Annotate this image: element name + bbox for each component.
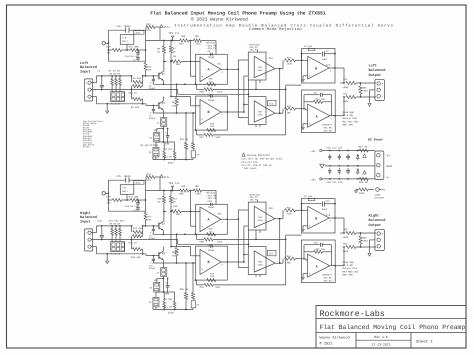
pin stubs IC4	[256, 50, 258, 52]
shunt regulator TL431	[134, 31, 145, 35]
svg-text:R30: R30	[106, 45, 111, 48]
wire output top	[343, 68, 345, 83]
output node IC3	[275, 262, 283, 264]
svg-text:+: +	[201, 225, 203, 228]
ground at output connector	[370, 239, 375, 241]
svg-text:499: 499	[172, 255, 177, 258]
rail splitter U2 TLE2426	[120, 35, 134, 45]
wire cross-feedback between diff amps	[279, 69, 281, 114]
svg-text:Input: Input	[80, 220, 91, 225]
svg-text:+: +	[201, 268, 203, 271]
svg-text:1A21: 1A21	[217, 90, 223, 93]
wire output A	[330, 265, 344, 267]
wire op-amp B output	[221, 261, 244, 263]
resistor R5 499	[131, 90, 133, 100]
svg-text:IC9: IC9	[326, 214, 331, 217]
svg-text:C16: C16	[97, 220, 102, 223]
capacitor C24 47uF/25	[137, 204, 139, 207]
svg-text:2021 1B: 2021 1B	[163, 305, 173, 308]
svg-text:B: B	[208, 260, 210, 265]
diff amp IC7 THAT1240 box	[248, 247, 266, 275]
svg-text:C0A1: C0A1	[363, 240, 369, 243]
svg-text:7K5: 7K5	[147, 68, 152, 71]
svg-text:IC6: IC6	[217, 213, 222, 216]
svg-text:L431: L431	[135, 182, 141, 185]
resistor R69 100	[360, 233, 362, 236]
svg-text:+: +	[309, 123, 311, 126]
resistor R16 10K	[194, 39, 202, 42]
label IC3	[268, 100, 277, 106]
svg-text:-: -	[201, 254, 203, 257]
svg-text:10K: 10K	[106, 202, 111, 205]
resistor R43	[119, 226, 121, 229]
title block divider 2	[316, 332, 466, 334]
capacitor C2 220pF	[152, 76, 154, 78]
svg-text:+: +	[381, 83, 383, 86]
svg-text:R52 R51: R52 R51	[163, 298, 173, 301]
svg-text:R34: R34	[147, 23, 152, 26]
title block divider 1	[316, 318, 466, 320]
jumper J5	[154, 132, 160, 142]
resistor R14 316 on box edge	[207, 83, 216, 86]
feedback resistor box	[308, 48, 315, 50]
svg-text:220pF: 220pF	[208, 99, 215, 102]
svg-text:R58 1B: R58 1B	[180, 288, 189, 291]
resistor R59 1K21	[195, 279, 197, 281]
jumper header JH1	[111, 92, 125, 102]
wire servo tap B stage	[286, 84, 302, 86]
svg-text:Q1: Q1	[162, 73, 166, 76]
op-amp IC5 A	[308, 104, 330, 127]
resistor R50 499	[176, 234, 178, 247]
resistor R73 10	[131, 236, 133, 239]
output op-amp box A	[301, 90, 335, 133]
svg-text:TP4: TP4	[381, 189, 386, 192]
svg-text:Balanced: Balanced	[80, 215, 97, 220]
svg-text:-15v P4: -15v P4	[322, 129, 332, 132]
svg-text:R16: R16	[196, 42, 201, 45]
svg-text:Right: Right	[369, 214, 380, 219]
svg-text:68nF: 68nF	[322, 58, 328, 61]
capacitor C18 220pF	[152, 256, 154, 259]
output op-amp box B	[302, 49, 336, 84]
jumper J6	[153, 147, 159, 157]
resistor R64 10K	[282, 259, 284, 264]
rail splitter loop	[107, 180, 109, 211]
resistor R13 10	[131, 86, 133, 89]
output connector J10	[375, 79, 385, 100]
svg-text:Δ17v: Δ17v	[164, 26, 171, 29]
left channel bias rail	[146, 40, 180, 42]
svg-text:499: 499	[176, 213, 181, 216]
svg-text:R22: R22	[343, 78, 348, 81]
wire Q2 emitter row	[153, 262, 195, 264]
capacitor C17 220pF	[152, 226, 154, 228]
wire input- line	[91, 96, 96, 98]
ground at output connector	[370, 89, 375, 91]
svg-text:-15v P4: -15v P4	[322, 279, 332, 282]
wire cross-couple A out	[237, 218, 239, 220]
ground at output A + input	[303, 273, 308, 275]
transistor Q1 ZTX851	[158, 73, 160, 80]
svg-text:+: +	[201, 118, 203, 121]
svg-text:R66 100: R66 100	[343, 123, 354, 126]
svg-text:500: 500	[165, 292, 170, 295]
svg-text:R45 499: R45 499	[131, 256, 141, 259]
wire input+ line	[91, 82, 96, 84]
svg-text:+509: +509	[343, 236, 349, 239]
op-amp stage box B	[196, 246, 228, 280]
wire emitter bus	[153, 233, 195, 235]
svg-text:R68: R68	[343, 228, 348, 231]
pin stubs IC3	[255, 125, 257, 128]
resistor R74 178	[146, 175, 155, 178]
wire op-amp A output	[221, 218, 238, 220]
svg-text:R62: R62	[287, 207, 292, 210]
svg-text:Gain: Gain	[168, 312, 175, 315]
svg-text:1A21: 1A21	[215, 136, 221, 139]
resistor R62 121K	[282, 210, 284, 218]
resistor R60 1K21	[195, 233, 196, 235]
svg-text:1240: 1240	[258, 113, 264, 116]
wire output bottom	[343, 247, 345, 266]
resistor R6 1K	[163, 41, 165, 47]
wire cross-couple B out	[243, 111, 245, 113]
resistor R19 1K21	[195, 129, 197, 131]
svg-text:L431: L431	[135, 32, 141, 35]
svg-text:+: +	[309, 273, 311, 276]
wire output B	[329, 67, 344, 69]
svg-text:10K: 10K	[195, 185, 200, 188]
svg-text:1240: 1240	[258, 69, 264, 72]
warning marker -	[363, 171, 366, 174]
capacitor C3 220pF	[152, 106, 154, 109]
right channel	[80, 173, 385, 314]
svg-text:R44 499: R44 499	[133, 227, 143, 230]
svg-text:1B 1B 1B: 1B 1B 1B	[109, 73, 120, 76]
svg-text:R22: R22	[287, 57, 292, 60]
svg-text:7K5: 7K5	[147, 218, 152, 221]
resistor R51	[173, 301, 176, 308]
resistor R46 1K	[163, 191, 165, 197]
svg-text:R37 1R: R37 1R	[359, 145, 368, 148]
svg-text:C22: C22	[314, 242, 319, 245]
capacitor C2F electrolytic	[192, 263, 194, 293]
capacitor C8 47uF/25	[137, 50, 139, 52]
svg-text:Q4: Q4	[162, 252, 166, 255]
svg-text:R48: R48	[173, 205, 178, 208]
svg-text:J1,J2,J3: J1,J2,J3	[110, 253, 121, 256]
output op-amp box B	[302, 199, 336, 234]
wire input+ line	[91, 232, 96, 234]
resistor R22 5R9	[346, 81, 356, 84]
svg-text:R74: R74	[147, 173, 152, 176]
svg-text:V-: V-	[387, 176, 391, 179]
feedback resistor box	[308, 198, 315, 200]
svg-text:10K: 10K	[181, 35, 186, 38]
node wire rail to input stage	[163, 190, 165, 192]
wire Q2 emitter row	[153, 112, 195, 114]
resistor R32 7K5	[145, 61, 147, 62]
svg-text:C19: C19	[208, 200, 213, 203]
svg-text:R12 R11: R12 R11	[163, 148, 173, 151]
svg-text:Gain: Gain	[168, 162, 175, 165]
svg-text:Δ17v: Δ17v	[164, 176, 171, 179]
svg-text:178: 178	[147, 179, 152, 182]
capacitor C11	[338, 168, 340, 170]
resistor R9 499	[176, 84, 178, 97]
wire servo tap B stage	[286, 234, 302, 236]
svg-text:R2B: R2B	[200, 90, 205, 93]
svg-text:-: -	[381, 95, 383, 98]
wire rail to op-amp supply	[202, 190, 217, 192]
rail splitter loop	[107, 30, 109, 61]
capacitor C12	[338, 154, 340, 156]
svg-text:1Z1K: 1Z1K	[287, 212, 293, 215]
resistor R20 1K21	[195, 83, 196, 85]
svg-text:R19: R19	[200, 286, 205, 289]
output node IC4	[275, 68, 283, 70]
svg-text:R55: R55	[179, 192, 184, 195]
svg-text:+15v: +15v	[310, 150, 316, 153]
svg-text:DC Power: DC Power	[368, 137, 383, 141]
wire Q2 collector to op-amp B	[171, 246, 191, 248]
wire output A	[330, 115, 344, 117]
svg-text:IC1: IC1	[217, 63, 222, 66]
svg-text:IC2: IC2	[326, 64, 331, 67]
svg-text:Gnd: Gnd	[387, 164, 393, 168]
svg-text:-15v P4: -15v P4	[249, 199, 259, 202]
svg-text:Output: Output	[369, 73, 382, 78]
svg-text:Left: Left	[80, 61, 88, 66]
svg-text:220pF: 220pF	[208, 56, 215, 59]
wire cross-feedback between diff amps	[279, 219, 281, 264]
node Δ17v	[160, 25, 163, 28]
svg-text:Right: Right	[80, 211, 91, 216]
svg-text:10K: 10K	[287, 262, 292, 265]
svg-text:R64: R64	[287, 255, 292, 258]
diff amp IC8 THAT1240 triangle	[254, 206, 275, 227]
svg-text:+: +	[309, 75, 311, 78]
svg-text:220pF: 220pF	[208, 206, 215, 209]
svg-text:R73 10: R73 10	[129, 242, 138, 245]
wire op-amp A output	[221, 68, 238, 70]
svg-text:Output: Output	[369, 223, 382, 228]
op-amp IC6 B	[200, 250, 221, 275]
resistor R37 1R	[359, 149, 368, 152]
label IC7	[268, 250, 277, 256]
svg-text:R56: R56	[196, 192, 201, 195]
wire output top	[343, 218, 345, 233]
warning marker +	[363, 154, 366, 157]
svg-text:Ground: Ground	[375, 197, 385, 200]
svg-text:-: -	[309, 60, 311, 63]
node Δ17v	[160, 175, 163, 178]
svg-text:1A21: 1A21	[217, 240, 223, 243]
case ground test point TP4	[376, 188, 380, 192]
resistor R36 1R	[359, 177, 368, 180]
svg-text:316: 316	[210, 125, 215, 128]
pin stubs IC4	[256, 200, 258, 202]
jumper J12	[153, 297, 159, 307]
svg-text:Sheet 1: Sheet 1	[416, 339, 433, 344]
svg-text:220pF: 220pF	[149, 117, 156, 120]
svg-text:R71 3MB: R71 3MB	[129, 195, 139, 198]
svg-text:-: -	[309, 258, 311, 261]
op-amp IC1 A	[200, 57, 221, 82]
svg-text:316: 316	[209, 230, 214, 233]
svg-text:-: -	[309, 210, 311, 213]
title block vertical divider 2	[410, 333, 412, 349]
diode D2	[357, 170, 360, 173]
ground at output B + input	[303, 225, 308, 227]
svg-text:Rail: Rail	[122, 190, 128, 193]
svg-text:R10 1B: R10 1B	[180, 138, 189, 141]
svg-text:R36 1R: R36 1R	[359, 181, 368, 184]
resistor R7 1K	[170, 41, 172, 47]
resistor R34 178	[146, 25, 155, 28]
svg-text:-: -	[381, 245, 383, 248]
svg-text:Fusing Resistor: Fusing Resistor	[247, 154, 271, 157]
svg-text:316: 316	[209, 80, 214, 83]
DC power ground rail	[325, 165, 375, 167]
resistor R3	[119, 76, 121, 79]
svg-text:+: +	[201, 75, 203, 78]
diff amp IC7 THAT1240 triangle	[254, 251, 275, 272]
svg-text:Balanced: Balanced	[369, 68, 386, 73]
diff amp IC3 THAT1240 triangle	[254, 101, 275, 122]
svg-text:VR1: VR1	[154, 279, 159, 282]
capacitor C13	[347, 168, 349, 170]
svg-text:R31 3MB: R31 3MB	[129, 45, 139, 48]
resistor R42	[115, 226, 117, 229]
svg-text:C26 C11 C13: C26 C11 C13	[327, 181, 343, 184]
svg-text:10K: 10K	[181, 185, 186, 188]
ground test point at rail splitter	[102, 192, 105, 195]
svg-text:-: -	[201, 211, 203, 214]
wire gain cluster bottom	[153, 159, 193, 161]
op-amp IC10 A	[308, 254, 330, 277]
svg-text:R13 10: R13 10	[129, 92, 138, 95]
svg-text:1A21: 1A21	[215, 286, 221, 289]
ground at output B + input	[303, 75, 308, 77]
svg-text:+: +	[309, 225, 311, 228]
svg-text:C1: C1	[97, 70, 101, 73]
svg-text:IC3: IC3	[269, 103, 274, 106]
wire output B	[329, 217, 344, 219]
svg-text:220pF: 220pF	[149, 267, 156, 270]
transistor Q2 ZTX851	[158, 102, 160, 109]
resistor R54 316 on box edge	[207, 233, 216, 236]
ground at output A + input	[303, 123, 308, 125]
svg-text:1240: 1240	[258, 263, 264, 266]
output op-amp box A	[301, 240, 335, 283]
wire cross-couple B out	[243, 261, 245, 263]
svg-text:V+: V+	[387, 155, 391, 158]
resistor R2	[115, 76, 117, 79]
svg-text:Flat Balanced Input Moving Coi: Flat Balanced Input Moving Coil Phono Pr…	[150, 10, 326, 16]
title block vertical divider 1	[355, 333, 357, 349]
svg-text:© 2021: © 2021	[320, 342, 333, 347]
svg-text:C0A1: C0A1	[363, 90, 369, 93]
svg-text:R69 100: R69 100	[343, 273, 354, 276]
wire shield bus	[91, 239, 178, 241]
jumper header JH2	[111, 242, 125, 252]
capacitor C26	[329, 168, 331, 170]
svg-text:+509: +509	[343, 250, 349, 253]
svg-text:Rockmore-Labs: Rockmore-Labs	[320, 309, 385, 319]
diff amp IC4 THAT1240 triangle	[254, 56, 275, 77]
rail splitter U4 TLE2426	[120, 185, 134, 195]
resistor R15 10K	[180, 39, 189, 42]
svg-text:-: -	[309, 108, 311, 111]
wire gain column	[162, 113, 164, 118]
svg-text:TP1 11v: TP1 11v	[169, 32, 180, 35]
svg-text:R15: R15	[179, 42, 184, 45]
resistor R38	[359, 188, 368, 191]
op-amp IC9 B	[308, 206, 329, 229]
right channel bias rail	[146, 190, 180, 192]
wire gain column	[162, 263, 164, 268]
op-amp IC1 B	[200, 100, 221, 125]
svg-text:Rail: Rail	[122, 40, 128, 43]
capacitor C2F electrolytic	[192, 113, 194, 143]
diode D1	[357, 156, 360, 159]
title block rev divider	[356, 339, 411, 341]
ground below input-	[106, 254, 108, 261]
right channel supply rail wire	[108, 179, 125, 181]
resistor R67 5R9	[346, 245, 356, 248]
DC power connector J14	[375, 151, 384, 180]
wire bias divider to op-amp	[190, 41, 192, 77]
svg-text:Q3: Q3	[162, 223, 166, 226]
capacitor C22	[329, 154, 331, 156]
jumper J10	[154, 282, 160, 292]
svg-text:* Not used.: * Not used.	[242, 167, 258, 170]
capacitor C23 47uF/25	[137, 200, 139, 202]
output connector J13	[375, 229, 385, 250]
wire rail to op-amp supply	[202, 40, 217, 42]
svg-text:+509: +509	[343, 86, 349, 89]
svg-text:R4 499: R4 499	[133, 77, 142, 80]
wire bias divider to op-amp	[190, 191, 192, 227]
svg-text:R67: R67	[343, 242, 348, 245]
shunt regulator TL431	[134, 181, 145, 185]
svg-text:Q2: Q2	[162, 102, 166, 105]
wire op-amp B output	[221, 111, 244, 113]
resistor R56 10K	[194, 189, 202, 192]
node wire rail to input stage	[163, 40, 165, 42]
left channel	[80, 23, 385, 164]
op-amp IC6 A	[200, 207, 221, 232]
resistor R45 499	[131, 240, 133, 250]
ground test point at rail splitter	[102, 42, 105, 45]
capacitor C14	[347, 154, 349, 156]
svg-text:R19: R19	[200, 136, 205, 139]
svg-text:+509: +509	[343, 100, 349, 103]
ground below input-	[106, 104, 108, 111]
svg-text:12-13-2021: 12-13-2021	[371, 342, 390, 346]
svg-text:TP3 11v: TP3 11v	[169, 182, 180, 185]
wire Q2 collector to op-amp B	[171, 96, 191, 98]
svg-text:2021 1B: 2021 1B	[163, 155, 173, 158]
svg-text:Left: Left	[369, 64, 377, 69]
svg-text:© 2021 Wayne Kirkwood: © 2021 Wayne Kirkwood	[191, 16, 248, 22]
svg-text:R70: R70	[106, 195, 111, 198]
svg-text:10K: 10K	[287, 112, 292, 115]
op-amp stage box A	[196, 204, 228, 234]
svg-text:C10, 100nF: C10, 100nF	[116, 25, 131, 28]
